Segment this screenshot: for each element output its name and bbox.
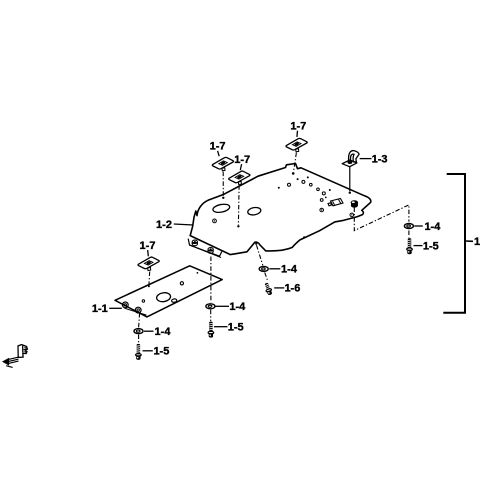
bolt 1-5 (right) <box>407 238 413 254</box>
svg-text:1-7: 1-7 <box>234 154 250 166</box>
stud on tab (left) <box>192 240 197 246</box>
leader 1-4 right <box>414 225 423 227</box>
svg-text:1-7: 1-7 <box>290 121 306 133</box>
washer 1-4 (left) <box>134 329 143 334</box>
label 1-5 (left) <box>153 346 169 358</box>
clip 1-7 D <box>138 257 159 270</box>
plate 1-2 small hole with ring <box>213 219 217 223</box>
leader for 1-2 <box>174 224 194 225</box>
svg-text:1-4: 1-4 <box>281 263 298 275</box>
label 1-5 (middle) <box>228 321 244 333</box>
plate 1-2 large hole right <box>247 207 261 216</box>
label 1-4 (left) <box>155 326 172 338</box>
leader for 1-7 C <box>296 131 299 137</box>
small holes cluster right <box>303 188 331 238</box>
label 1-6 <box>284 283 300 295</box>
bolt 1-5 (middle) <box>208 322 214 338</box>
clip 1-7 C <box>286 138 307 151</box>
clip B landing hole <box>237 225 239 227</box>
plate 1-2 lower-left mounting tab <box>188 239 222 258</box>
centerline clip D <box>148 272 151 286</box>
plate 1-1 small hole <box>171 299 177 303</box>
label 1-3 <box>372 153 388 165</box>
leader 1-5 middle <box>214 326 228 328</box>
label 1-7 (B) <box>234 154 250 166</box>
label 1-4 (middle) <box>229 301 246 313</box>
label 1-7 (C) <box>290 121 306 133</box>
svg-text:1-2: 1-2 <box>156 219 172 231</box>
label 1-4 (right) <box>424 221 441 233</box>
label 1-7 (A) <box>210 141 226 153</box>
bracket 1-3 <box>342 151 359 167</box>
centerline middle chain <box>210 257 212 322</box>
centerline right chain <box>354 205 409 238</box>
label 1-7 (D) <box>140 240 156 252</box>
plate 1-1 nut right <box>135 307 141 313</box>
washer 1-4 (slant chain) <box>259 266 268 271</box>
hump landing hole <box>255 243 257 245</box>
bracket 1-3 landing hole <box>349 192 351 194</box>
stud on tab (right) <box>208 248 213 254</box>
small hole below bolt head <box>350 213 354 217</box>
leader for 1-7 A <box>218 151 220 156</box>
plate 1-1 hole top <box>180 282 183 285</box>
small holes cluster upper middle <box>278 176 312 188</box>
label 1 <box>474 236 480 248</box>
label 1-1 <box>92 303 108 315</box>
clip D landing hole on plate 1-1 <box>148 285 150 287</box>
leader for 1-3 <box>360 158 372 160</box>
centerline bracket 1-3 <box>349 167 351 191</box>
washer 1-4 (middle) <box>206 304 215 309</box>
leader 1-4 slant <box>269 268 280 270</box>
washer 1-4 (right) <box>404 224 413 229</box>
plate 1-1 outline <box>115 266 222 317</box>
svg-text:1: 1 <box>474 236 480 248</box>
clip 1-7 B <box>229 171 250 184</box>
leader 1-4 left <box>144 330 154 332</box>
label 1-5 (right) <box>423 241 439 253</box>
plate 1-2 large hole left <box>212 203 230 214</box>
svg-text:1-4: 1-4 <box>155 326 172 338</box>
direction arrow icon <box>2 345 27 368</box>
svg-text:1-5: 1-5 <box>423 241 439 253</box>
bolt 1-5 (left) <box>136 344 142 360</box>
clip 1-7 A <box>212 157 233 170</box>
dark bolt head on plate (right) <box>351 200 358 207</box>
svg-text:1-4: 1-4 <box>424 221 441 233</box>
plate 1-1 tiny dot <box>197 272 199 274</box>
leader for 1-1 <box>109 307 122 309</box>
assembly bracket for item 1 <box>443 174 473 313</box>
svg-text:1-7: 1-7 <box>210 141 226 153</box>
centerline slanted chain to 1-6 <box>257 245 268 281</box>
leader 1-5 left <box>143 350 153 352</box>
skid plate 1-2 outline <box>190 164 371 255</box>
label 1-4 (slant chain) <box>281 263 298 275</box>
bolt 1-6 <box>264 282 273 296</box>
svg-text:1-3: 1-3 <box>372 153 388 165</box>
leader 1-5 right <box>414 245 423 247</box>
leader 1-6 <box>274 287 284 289</box>
svg-text:1-5: 1-5 <box>153 346 169 358</box>
leader 1-4 middle <box>216 305 230 307</box>
centerline clip C <box>294 153 297 172</box>
centerline clip A <box>222 172 224 197</box>
plate 1-1 nut left <box>122 302 128 308</box>
label 1-2 <box>156 219 172 231</box>
plate 1-1 large hole <box>156 292 171 303</box>
leader for 1-7 B <box>240 164 241 170</box>
centerline left chain <box>139 313 140 343</box>
clip A landing hole <box>222 197 224 199</box>
plate 1-1 small circle <box>142 300 144 302</box>
svg-text:1-6: 1-6 <box>284 283 300 295</box>
svg-text:1-1: 1-1 <box>92 303 108 315</box>
clip C landing hole on top tab <box>292 172 295 175</box>
svg-text:1-5: 1-5 <box>228 321 244 333</box>
svg-text:1-4: 1-4 <box>229 301 246 313</box>
centerline clip B <box>237 185 240 225</box>
mini bracket on plate <box>328 199 343 206</box>
leader for 1-7 D <box>147 250 150 256</box>
